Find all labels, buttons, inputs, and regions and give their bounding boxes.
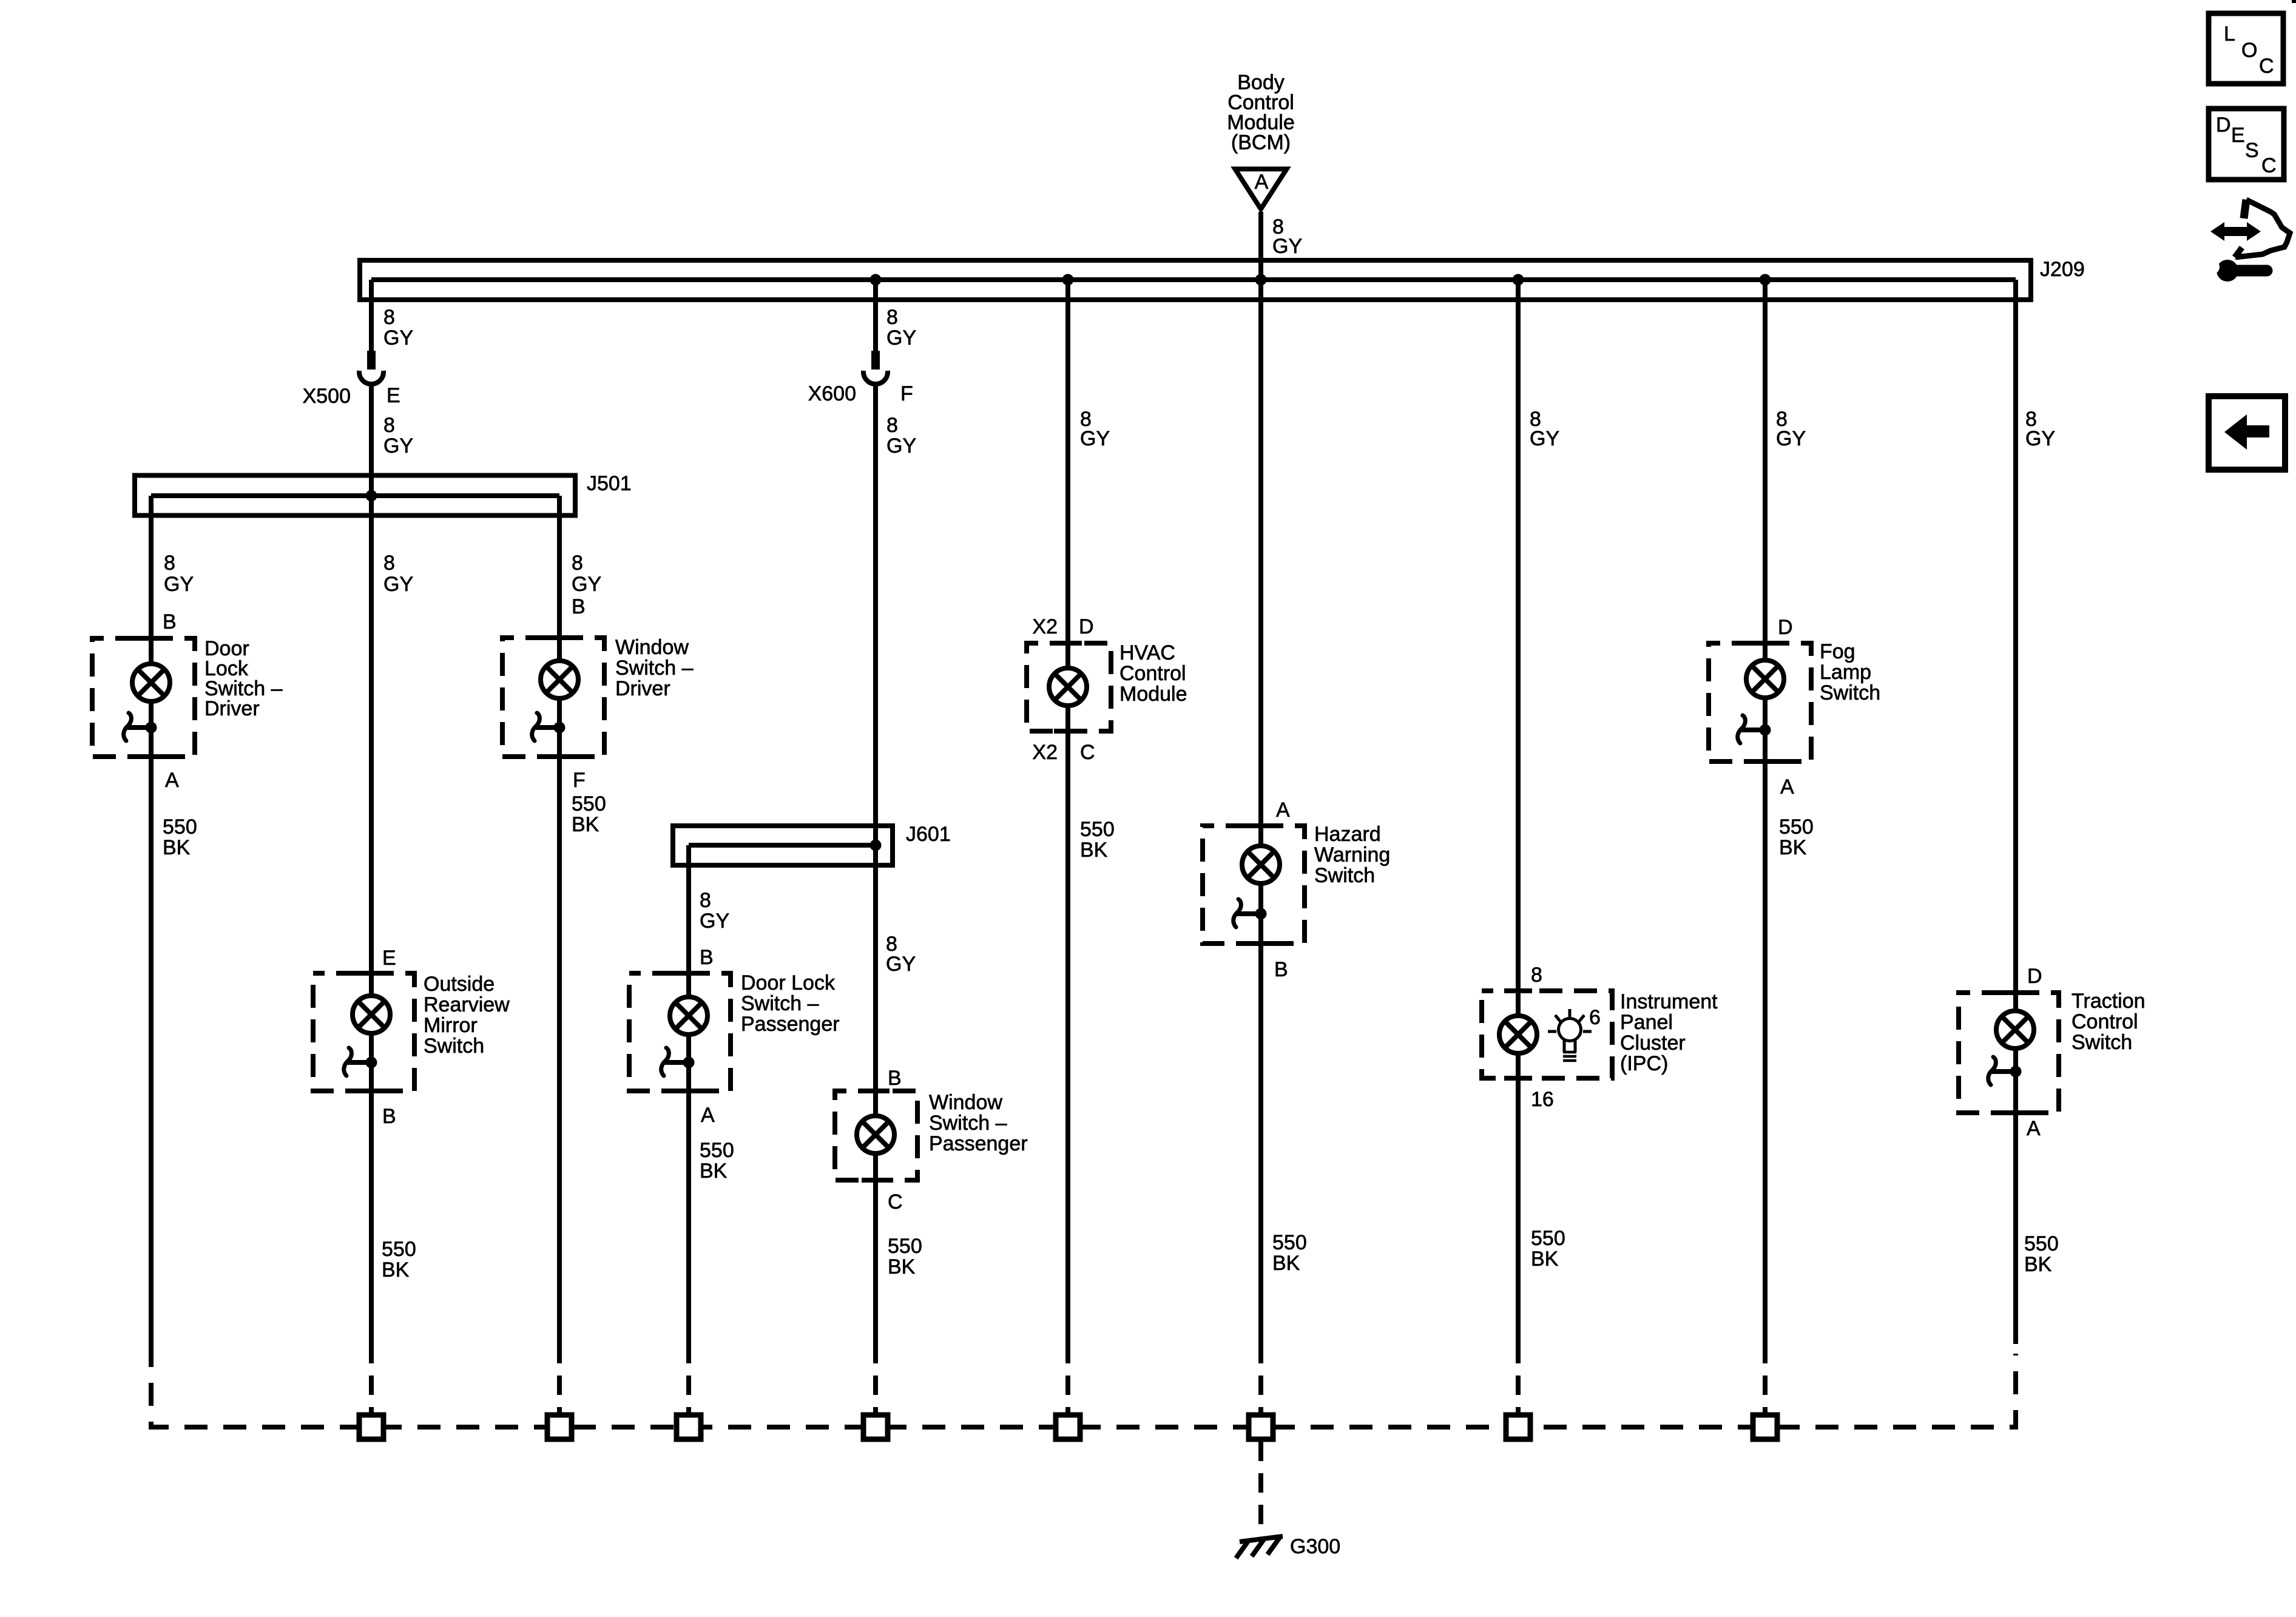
label J501 — [587, 472, 632, 495]
svg-text:Window: Window — [615, 636, 689, 659]
svg-text:GY: GY — [572, 573, 601, 596]
lamp (outside rearview mirror switch illumination) — [353, 996, 390, 1033]
component label HVAC Control Module — [1119, 641, 1187, 706]
wire label 550 BK (IPC) — [1531, 1227, 1565, 1271]
component label Window Switch - Driver — [615, 636, 694, 700]
wire label 8 GY (BCM feed) — [1272, 215, 1302, 258]
switch contact (traction control) — [1988, 1057, 2022, 1085]
svg-text:550: 550 — [1779, 815, 1814, 839]
wire lamp to switch (traction control) — [2013, 1048, 2018, 1113]
wire label 8 GY (X500 to J501) — [383, 414, 413, 457]
svg-text:Driver: Driver — [204, 697, 260, 720]
svg-text:16: 16 — [1531, 1088, 1554, 1111]
splice J501 outline — [135, 476, 575, 516]
svg-text:BK: BK — [1272, 1252, 1300, 1275]
svg-text:E: E — [387, 384, 400, 407]
label X600 — [808, 382, 856, 405]
wire ground distribution bus (dashed) — [151, 1344, 2016, 1427]
component Traction Control Switch box — [1959, 993, 2059, 1113]
svg-text:GY: GY — [886, 434, 916, 457]
svg-text:(BCM): (BCM) — [1231, 131, 1291, 154]
svg-text:Switch –: Switch – — [741, 992, 819, 1015]
svg-text:D: D — [2027, 965, 2042, 988]
svg-text:8: 8 — [164, 552, 175, 575]
wire J209 to X500 (8 GY) — [369, 280, 374, 351]
svg-text:(IPC): (IPC) — [1620, 1052, 1668, 1075]
wire bus J209 conductor — [371, 277, 2016, 282]
wire label 8 GY (HVAC) — [1080, 408, 1110, 450]
svg-text:Rearview: Rearview — [424, 993, 510, 1016]
component label Fog Lamp Switch — [1820, 640, 1880, 704]
lamp (fog lamp switch illumination) — [1746, 660, 1784, 698]
svg-text:Passenger: Passenger — [929, 1132, 1028, 1155]
wire label 8 GY (door lock passenger) — [700, 889, 729, 933]
bus J209 outline — [360, 260, 2031, 300]
pin B label (hazard warning switch) — [1274, 958, 1288, 981]
pin E label (outside rearview mirror switch) — [382, 947, 396, 970]
svg-text:A: A — [2027, 1117, 2041, 1140]
junction dot J209/BCM wire — [1255, 274, 1267, 286]
svg-text:C: C — [2259, 55, 2274, 78]
pin B label (door lock passenger) — [700, 946, 714, 969]
svg-text:GY: GY — [886, 326, 916, 349]
wire label 8 GY (door lock driver) — [164, 552, 194, 596]
wire splice J501 conductor — [151, 493, 559, 498]
component Instrument Panel Cluster box — [1482, 991, 1612, 1078]
svg-text:550: 550 — [1080, 818, 1115, 841]
pin A label (traction control switch) — [2027, 1117, 2041, 1140]
svg-text:6: 6 — [1589, 1006, 1601, 1029]
svg-text:Mirror: Mirror — [424, 1014, 478, 1037]
svg-text:B: B — [1274, 958, 1288, 981]
pin F label (window switch driver) — [573, 769, 586, 792]
wire dashed drop to ground bus (HVAC) — [1065, 1344, 1070, 1414]
svg-text:Traction: Traction — [2071, 990, 2146, 1013]
svg-text:X600: X600 — [808, 382, 856, 405]
ground G300 symbol — [1236, 1536, 1283, 1558]
svg-text:GY: GY — [383, 326, 413, 349]
svg-text:Switch: Switch — [1314, 864, 1375, 887]
svg-text:Panel: Panel — [1620, 1011, 1673, 1034]
svg-text:A: A — [701, 1104, 715, 1127]
pin B label (outside rearview mirror switch) — [382, 1105, 396, 1128]
junction dot J209/fog lamp wire — [1760, 274, 1771, 286]
pin D label (fog lamp switch) — [1778, 616, 1793, 639]
wire HVAC to ground bus (550 BK) — [1065, 706, 1070, 1344]
pin 16 label (IPC) — [1531, 1088, 1554, 1111]
wire label 550 BK (outside rearview mirror) — [382, 1238, 416, 1281]
svg-text:J209: J209 — [2040, 258, 2085, 281]
svg-text:Switch: Switch — [424, 1035, 484, 1058]
svg-text:Switch –: Switch – — [929, 1112, 1007, 1135]
wire label 550 BK (window switch passenger) — [888, 1235, 922, 1278]
svg-text:Control: Control — [1119, 662, 1186, 685]
wire J601 to door lock switch passenger (8 GY) — [686, 845, 691, 997]
splice J601 outline — [673, 826, 893, 865]
wire label 8 GY (fog lamp switch) — [1776, 408, 1806, 450]
wire lamp to switch (window switch driver) — [557, 698, 562, 757]
wire dashed drop to ground bus (window driver) — [557, 1344, 562, 1414]
pin F label (X600) — [900, 382, 913, 405]
svg-text:S: S — [2245, 139, 2259, 162]
svg-text:B: B — [163, 610, 177, 633]
pin C label (window switch passenger) — [888, 1190, 903, 1214]
module BCM label (Body Control Module) — [1227, 71, 1295, 154]
lamp (window switch driver illumination) — [541, 661, 578, 698]
svg-text:GY: GY — [1530, 427, 1559, 450]
svg-text:550: 550 — [572, 792, 606, 815]
wire lamp to switch (door lock driver) — [149, 701, 154, 757]
off-page connector triangle A (BCM) — [1235, 169, 1287, 209]
svg-text:Warning: Warning — [1314, 843, 1390, 866]
svg-text:G300: G300 — [1290, 1535, 1340, 1558]
switch contact (door lock driver) — [124, 713, 157, 741]
lamp (window switch passenger illumination) — [857, 1116, 894, 1153]
svg-text:Door Lock: Door Lock — [741, 971, 836, 994]
wire J209 to HVAC control module (8 GY) — [1065, 280, 1070, 668]
svg-text:J501: J501 — [587, 472, 632, 495]
svg-text:BK: BK — [700, 1160, 728, 1183]
svg-text:BK: BK — [888, 1255, 916, 1278]
wire dashed drop to ground bus (fog lamp) — [1763, 1344, 1768, 1414]
wire dashed drop to ground bus (IPC) — [1516, 1344, 1521, 1414]
label J601 — [906, 823, 951, 846]
svg-text:A: A — [1276, 798, 1290, 822]
pin A label (hazard warning switch) — [1276, 798, 1290, 822]
svg-text:B: B — [382, 1105, 396, 1128]
svg-text:O: O — [2241, 39, 2257, 62]
sidebar icon wiring/wrench (double arrow, outline arrow, wrench) — [2205, 200, 2290, 282]
svg-text:GY: GY — [1776, 427, 1806, 450]
wire J501 to door lock switch driver (8 GY) — [149, 496, 154, 664]
component Hazard Warning Switch box — [1203, 826, 1305, 944]
svg-text:8: 8 — [1531, 964, 1542, 987]
svg-text:550: 550 — [382, 1238, 416, 1261]
svg-text:Passenger: Passenger — [741, 1013, 840, 1036]
wire label 550 BK (window switch driver) — [572, 792, 606, 836]
component label Traction Control Switch — [2071, 990, 2146, 1054]
pin B label (window switch passenger) — [888, 1067, 902, 1090]
svg-text:B: B — [700, 946, 714, 969]
page corner mark — [2292, 0, 2296, 3]
wire label 550 BK (traction control switch) — [2024, 1232, 2059, 1276]
wire outside rearview mirror to ground bus (550 BK) — [369, 1091, 374, 1344]
svg-text:Lamp: Lamp — [1820, 661, 1871, 684]
wire IPC to ground bus (550 BK) — [1516, 1053, 1521, 1344]
wire lamp to switch (door lock passenger) — [686, 1035, 691, 1091]
component label Door Lock Switch - Passenger — [741, 971, 840, 1036]
svg-text:D: D — [1778, 616, 1793, 639]
component Door Lock Switch - Driver box — [92, 638, 195, 757]
svg-text:GY: GY — [383, 434, 413, 457]
wire traction control switch to ground bus (550 BK) — [2013, 1113, 2018, 1344]
svg-text:8: 8 — [886, 306, 898, 329]
component label Instrument Panel Cluster (IPC) — [1620, 990, 1718, 1075]
wire dashed drop to ground bus (window passenger) — [873, 1344, 878, 1414]
wire J209 to X600 (8 GY) — [873, 280, 878, 351]
wire hazard warning switch to ground bus (550 BK) — [1258, 944, 1263, 1344]
svg-text:BK: BK — [572, 813, 599, 836]
wire splice J601 conductor — [689, 843, 876, 848]
svg-text:BK: BK — [2024, 1253, 2052, 1276]
svg-text:F: F — [573, 769, 586, 792]
component Fog Lamp Switch box — [1709, 643, 1811, 761]
svg-text:HVAC: HVAC — [1119, 641, 1175, 664]
ground bus junction square (fog lamp) — [1753, 1415, 1777, 1439]
connector X600 pin F — [863, 351, 888, 384]
lamp (hazard warning switch illumination) — [1242, 846, 1280, 883]
wire label 8 GY (X600 to J601) — [886, 414, 916, 457]
svg-text:BK: BK — [1080, 839, 1108, 862]
component label Door Lock Switch - Driver — [204, 637, 283, 720]
sidebar icon back arrow box — [2209, 396, 2285, 470]
svg-text:8: 8 — [383, 306, 395, 329]
label X500 — [303, 385, 351, 408]
svg-text:GY: GY — [886, 953, 916, 976]
wire lamp to switch (fog lamp) — [1763, 698, 1768, 761]
wire J209 to fog lamp switch (8 GY) — [1763, 280, 1768, 660]
wire fog lamp switch to ground bus (550 BK) — [1763, 761, 1768, 1344]
wire X600 to J601 (8 GY) — [873, 384, 878, 845]
svg-text:550: 550 — [2024, 1232, 2059, 1255]
svg-text:C: C — [2261, 154, 2277, 177]
wire lamp to switch (hazard warning) — [1258, 883, 1263, 944]
pin A label (fog lamp switch) — [1780, 775, 1794, 798]
svg-text:E: E — [382, 947, 396, 970]
sidebar icon DESC box — [2209, 109, 2284, 180]
svg-text:GY: GY — [1272, 235, 1302, 258]
wire J209 to traction control switch (8 GY) — [2013, 280, 2018, 1010]
svg-text:Instrument: Instrument — [1620, 990, 1718, 1013]
wire dashed drop ground bus to G300 — [1258, 1442, 1263, 1536]
wire window switch driver to ground bus (550 BK) — [557, 757, 562, 1344]
svg-text:Outside: Outside — [424, 973, 495, 996]
switch contact (fog lamp) — [1738, 715, 1771, 743]
pin B label (door lock driver) — [163, 610, 177, 633]
svg-text:D: D — [2216, 113, 2231, 137]
wire lamp to switch (outside rearview mirror) — [369, 1033, 374, 1091]
wire dashed drop to ground bus (hazard/G300) — [1258, 1344, 1263, 1414]
dimmable bulb icon with 6 (IPC) — [1548, 1006, 1601, 1061]
wire label 550 BK (fog lamp switch) — [1779, 815, 1814, 859]
switch contact (hazard warning) — [1234, 899, 1267, 927]
svg-text:X2: X2 — [1032, 615, 1058, 638]
component Door Lock Switch - Passenger box — [629, 973, 731, 1091]
pin X2 D label (HVAC) — [1032, 615, 1093, 638]
svg-text:Control: Control — [2071, 1010, 2138, 1033]
pin E label (X500) — [387, 384, 400, 407]
wire X500 to splice J501 (8 GY) — [369, 384, 374, 496]
svg-text:C: C — [1080, 741, 1095, 764]
svg-text:Switch: Switch — [2071, 1031, 2132, 1054]
svg-text:F: F — [900, 382, 913, 405]
svg-text:BK: BK — [1531, 1247, 1559, 1271]
pin 8 label (IPC) — [1531, 964, 1542, 987]
svg-text:B: B — [572, 595, 586, 618]
svg-text:BK: BK — [382, 1258, 410, 1281]
junction dot J501 — [366, 490, 377, 502]
svg-text:550: 550 — [888, 1235, 922, 1258]
wire label 550 BK (hazard warning switch) — [1272, 1231, 1307, 1275]
wire label 8 GY (traction control switch) — [2025, 408, 2055, 450]
svg-text:550: 550 — [1531, 1227, 1565, 1250]
component label Hazard Warning Switch — [1314, 823, 1390, 887]
svg-text:C: C — [888, 1190, 903, 1214]
wire dashed drop to ground bus (ORM) — [369, 1344, 374, 1414]
svg-text:GY: GY — [2025, 427, 2055, 450]
ground bus junction square (IPC) — [1506, 1415, 1530, 1439]
wire J209 to hazard warning switch (8 GY) — [1258, 280, 1263, 846]
svg-text:A: A — [1255, 170, 1269, 194]
svg-text:GY: GY — [1080, 427, 1110, 450]
svg-text:550: 550 — [1272, 1231, 1307, 1254]
wire label 8 GY (above X600) — [886, 306, 916, 349]
lamp (IPC illumination) — [1499, 1016, 1537, 1053]
pin A label (door lock driver) — [165, 769, 179, 792]
component Window Switch - Passenger box — [835, 1091, 917, 1180]
label J209 — [2040, 258, 2085, 281]
svg-text:A: A — [1780, 775, 1794, 798]
switch contact (window switch driver) — [532, 713, 566, 741]
svg-text:A: A — [165, 769, 179, 792]
wire door lock passenger to ground bus (550 BK) — [686, 1091, 691, 1344]
svg-text:L: L — [2224, 22, 2235, 46]
wire BCM A to bus J209 — [1258, 212, 1263, 280]
wire label 8 GY B (window switch driver) — [572, 552, 601, 618]
component Window Switch - Driver box — [502, 638, 604, 757]
svg-text:8: 8 — [383, 414, 395, 437]
switch contact (outside rearview mirror) — [344, 1048, 377, 1076]
wire door lock driver to ground bus (550 BK) — [149, 757, 154, 1344]
junction dot J209/X600 wire — [870, 274, 882, 286]
junction dot J209/HVAC wire — [1062, 274, 1074, 286]
svg-text:Switch –: Switch – — [615, 657, 694, 680]
svg-text:8: 8 — [700, 889, 711, 912]
svg-text:Hazard: Hazard — [1314, 823, 1381, 846]
component label Window Switch - Passenger — [929, 1091, 1028, 1155]
wire J209 to instrument panel cluster (8 GY) — [1516, 280, 1521, 1016]
ground bus junction square (HVAC) — [1056, 1415, 1080, 1439]
svg-text:GY: GY — [700, 910, 729, 933]
wire window switch passenger to ground bus (550 BK) — [873, 845, 878, 1344]
wire dashed drop to ground bus (door lock passenger) — [686, 1344, 691, 1414]
svg-text:8: 8 — [383, 552, 395, 575]
wire J501 to outside rearview mirror switch (8 GY) — [369, 496, 374, 996]
svg-text:X500: X500 — [303, 385, 351, 408]
wire label 8 GY (below J501 centre) — [383, 552, 413, 596]
ground bus junction square (hazard/G300) — [1249, 1415, 1273, 1439]
wire J501 to window switch driver (8 GY) — [557, 496, 562, 661]
svg-text:Switch: Switch — [1820, 681, 1880, 704]
component label Outside Rearview Mirror Switch — [424, 973, 510, 1058]
svg-text:Module: Module — [1119, 683, 1187, 706]
wire label 8 GY (IPC) — [1530, 408, 1559, 450]
wire label 550 BK (door lock passenger) — [700, 1139, 734, 1183]
component HVAC Control Module box — [1027, 643, 1111, 731]
svg-text:X2: X2 — [1032, 741, 1058, 764]
svg-text:BK: BK — [1779, 836, 1807, 859]
lamp (HVAC illumination) — [1049, 668, 1087, 706]
connector X500 pin E — [359, 351, 383, 384]
lamp (door lock passenger illumination) — [670, 997, 707, 1035]
svg-text:GY: GY — [164, 573, 194, 596]
switch contact (door lock passenger) — [661, 1048, 695, 1076]
label G300 — [1290, 1535, 1340, 1558]
component Outside Rearview Mirror Switch box — [313, 973, 414, 1091]
svg-text:Window: Window — [929, 1091, 1002, 1114]
pin D label (traction control switch) — [2027, 965, 2042, 988]
svg-text:Driver: Driver — [615, 677, 670, 700]
svg-text:550: 550 — [163, 815, 197, 839]
pin A label (door lock passenger) — [701, 1104, 715, 1127]
svg-text:8: 8 — [886, 414, 898, 437]
lamp (traction control switch illumination) — [1996, 1011, 2034, 1048]
svg-text:550: 550 — [700, 1139, 734, 1162]
ground bus junction square (window passenger) — [863, 1415, 888, 1439]
wire label 8 GY (J601 to window switch passenger) — [886, 933, 916, 976]
junction dot J601 — [870, 840, 882, 851]
svg-text:B: B — [888, 1067, 902, 1090]
svg-text:Fog: Fog — [1820, 640, 1855, 663]
lamp (door lock driver illumination) — [132, 664, 170, 701]
svg-text:D: D — [1079, 615, 1094, 638]
ground bus junction square (door lock passenger) — [677, 1415, 701, 1439]
junction dot J209/IPC wire — [1513, 274, 1524, 286]
svg-text:GY: GY — [383, 573, 413, 596]
wire label 8 GY (above X500) — [383, 306, 413, 349]
sidebar icon LOC box — [2209, 13, 2283, 84]
wire label 550 BK (door lock driver) — [163, 815, 197, 859]
svg-text:8: 8 — [572, 552, 583, 575]
svg-text:J601: J601 — [906, 823, 951, 846]
svg-text:BK: BK — [163, 836, 191, 859]
ground bus junction square (window driver) — [547, 1415, 572, 1439]
pin X2 C label (HVAC) — [1032, 741, 1095, 764]
ground bus junction square (ORM) — [359, 1415, 383, 1439]
wire label 550 BK (HVAC) — [1080, 818, 1115, 862]
svg-text:Cluster: Cluster — [1620, 1031, 1686, 1055]
svg-text:E: E — [2231, 124, 2245, 147]
